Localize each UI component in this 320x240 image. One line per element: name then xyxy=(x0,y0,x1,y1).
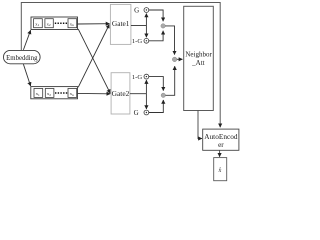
svg-text:xn: xn xyxy=(70,21,74,27)
svg-text:Neighbor: Neighbor xyxy=(185,51,212,59)
svg-text:1-G: 1-G xyxy=(132,74,142,81)
svg-text:Gate2: Gate2 xyxy=(112,89,130,98)
svg-text:xn: xn xyxy=(70,91,74,97)
svg-text:x̂: x̂ xyxy=(218,168,222,174)
svg-text:x1: x1 xyxy=(35,21,39,27)
svg-text:er: er xyxy=(218,140,224,149)
svg-text:x2: x2 xyxy=(47,91,51,97)
svg-text:Gate1: Gate1 xyxy=(112,19,130,28)
svg-text:Embedding: Embedding xyxy=(6,55,38,62)
svg-text:G: G xyxy=(134,109,139,117)
svg-text:G: G xyxy=(134,6,139,14)
svg-text:1-G: 1-G xyxy=(132,38,142,45)
svg-text:_Att: _Att xyxy=(191,59,205,67)
svg-text:x2: x2 xyxy=(47,21,51,27)
svg-text:x1: x1 xyxy=(36,91,40,97)
